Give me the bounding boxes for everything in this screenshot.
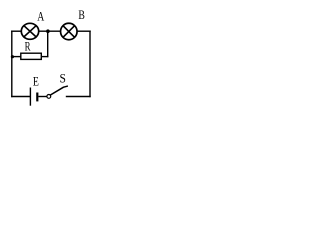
node junction dot top <box>46 29 50 33</box>
lamp A <box>21 23 38 39</box>
battery E short plate <box>36 93 38 102</box>
battery E long plate <box>29 88 31 106</box>
wire resistor branch left <box>12 56 21 58</box>
wire between lamp A and lamp B <box>38 30 62 32</box>
wire bottom-left to battery <box>11 96 30 98</box>
node junction dot left <box>11 55 14 58</box>
switch S pivot <box>47 95 51 99</box>
wire top-right segment <box>77 30 91 32</box>
wire battery to switch <box>38 96 46 98</box>
wire switch to bottom-right <box>66 96 91 98</box>
resistor R <box>21 53 42 59</box>
wire right vertical <box>89 31 91 98</box>
wire top-left segment <box>11 30 22 32</box>
lamp B <box>61 23 78 40</box>
svg-text:A: A <box>37 9 44 24</box>
wire riser resistor to node <box>47 31 49 57</box>
switch S lever <box>50 86 67 95</box>
svg-text:S: S <box>60 70 66 85</box>
wire resistor branch right <box>41 56 48 58</box>
svg-text:R: R <box>25 39 31 54</box>
svg-text:B: B <box>78 7 85 22</box>
svg-text:E: E <box>33 74 39 89</box>
wire left vertical <box>11 31 13 98</box>
